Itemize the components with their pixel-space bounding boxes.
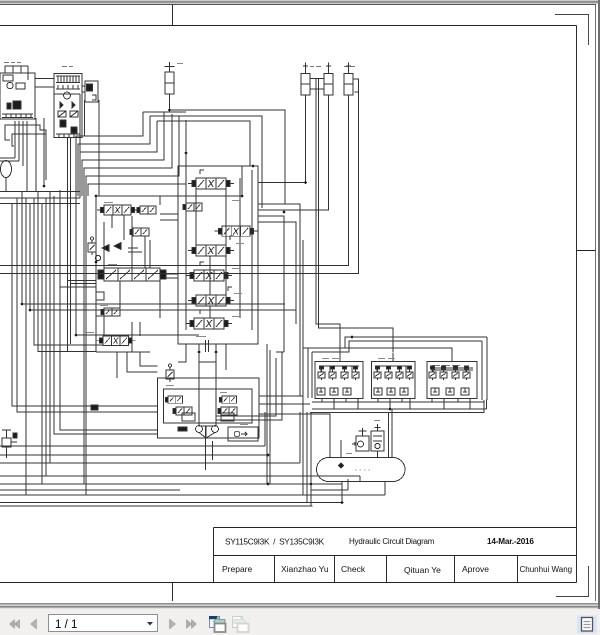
pilot valve 2.2 bbox=[385, 366, 392, 380]
valve C5 bbox=[186, 270, 232, 281]
pilot box 1 bbox=[315, 362, 363, 399]
solenoid P5 right bbox=[219, 396, 236, 403]
valve C4 bbox=[188, 245, 234, 256]
check L4 bbox=[96, 292, 104, 300]
frame top border bbox=[0, 25, 577, 27]
port block 3.1 bbox=[431, 388, 439, 395]
pump housing center bbox=[199, 362, 216, 426]
page number box bbox=[49, 615, 158, 632]
pilot valve 2.3 bbox=[396, 366, 403, 380]
button prev page bbox=[31, 619, 37, 629]
block P4 left bbox=[182, 413, 195, 421]
label pilot boxes bbox=[322, 358, 395, 360]
valve P3 left bbox=[173, 407, 192, 415]
pilot valve 3.2 bbox=[440, 366, 447, 380]
valve L1 bbox=[97, 205, 138, 215]
comb top row bbox=[56, 76, 80, 83]
pilot valve 1.3 bbox=[341, 366, 348, 380]
bank L rails bbox=[96, 196, 242, 352]
wire pump to right bbox=[259, 396, 330, 458]
button first page bbox=[10, 620, 20, 629]
valve C6 bbox=[188, 295, 234, 306]
arrow cluster L bbox=[102, 243, 121, 252]
attachment pipe bbox=[92, 95, 96, 100]
fold mark right middle bbox=[577, 250, 596, 252]
block A top piping bbox=[5, 66, 28, 80]
label tiny text B bbox=[62, 66, 73, 68]
wire attachment drops bbox=[85, 100, 100, 196]
button next page bbox=[170, 619, 176, 629]
port block 2.3 bbox=[400, 388, 408, 395]
valve L2 bbox=[137, 206, 156, 214]
pilot box 3 bbox=[427, 362, 477, 399]
relief P1 bbox=[166, 364, 174, 382]
wire tank verticals bbox=[303, 409, 392, 506]
valve L3 wide bbox=[104, 268, 160, 281]
wire assembly A drop bbox=[5, 125, 46, 180]
wire bank L to pump bbox=[117, 352, 158, 378]
svg-text:SY115C9I3K / SY135C9I3K: SY115C9I3K / SY135C9I3K bbox=[225, 537, 325, 547]
label pump bbox=[166, 386, 248, 425]
button last page bbox=[187, 620, 197, 629]
black port P8 bbox=[178, 427, 187, 431]
svg-text:Aprove: Aprove bbox=[462, 564, 489, 574]
viewer toolbar bbox=[0, 609, 600, 635]
wire bottom extra runs bbox=[0, 479, 348, 503]
port block 2.1 bbox=[374, 388, 382, 395]
box2 top feed bbox=[377, 353, 411, 373]
port block 3.2 bbox=[446, 388, 454, 395]
solenoid P2 left bbox=[165, 396, 182, 403]
block P7 right bbox=[221, 413, 234, 421]
port block 1.2 bbox=[330, 388, 338, 395]
valve B1 bbox=[58, 111, 66, 117]
check valves row bbox=[60, 102, 75, 108]
valve C1 bbox=[188, 178, 234, 189]
title block bbox=[214, 528, 577, 583]
fold mark bottom bbox=[172, 583, 174, 602]
label tiny text acc3 bbox=[344, 66, 355, 68]
wire bank feeds left bbox=[60, 281, 96, 288]
wire far runs upper bbox=[36, 94, 80, 198]
svg-text:Chunhui Wang: Chunhui Wang bbox=[520, 565, 573, 574]
valve P6 right bbox=[218, 407, 237, 415]
row2 cell dividers bbox=[275, 556, 518, 583]
pilot valve 1.4 bbox=[352, 366, 359, 380]
svg-text:Qituan Ye: Qituan Ye bbox=[404, 565, 441, 575]
right window border bbox=[598, 0, 600, 609]
valve L7 bbox=[96, 336, 135, 345]
gear circle bbox=[234, 431, 240, 437]
pilot valve 3.1 bbox=[429, 366, 436, 380]
port block 1.1 bbox=[317, 388, 325, 395]
row divider bbox=[214, 555, 577, 557]
pump outer box bbox=[158, 378, 260, 438]
gear box P9 bbox=[228, 427, 258, 441]
band between D1 D2 bbox=[310, 79, 324, 90]
wire left vertical bundle bbox=[12, 192, 158, 496]
comb row 2 bbox=[56, 85, 80, 89]
valve L6 bbox=[101, 308, 120, 316]
svg-text:14-Mar.-2016: 14-Mar.-2016 bbox=[487, 537, 534, 546]
bypass D3 bbox=[353, 79, 359, 92]
title block outline bbox=[214, 528, 577, 583]
frame bottom border bbox=[0, 582, 577, 584]
wire A down-left bbox=[15, 121, 27, 192]
micro labels bbox=[86, 64, 395, 454]
stubs L bbox=[112, 215, 145, 268]
button forward view (windows icon disabled) bbox=[233, 617, 249, 633]
block A outline bbox=[0, 73, 35, 119]
bank C outline bbox=[178, 166, 258, 344]
solenoid block A4 bbox=[7, 103, 11, 109]
pump circle A bbox=[7, 82, 13, 88]
attachment valve bbox=[87, 84, 93, 91]
fold mark top bbox=[172, 5, 174, 26]
valve L9 small bbox=[130, 228, 149, 236]
solenoid B3 bbox=[60, 120, 66, 127]
pilot valve 1.1 bbox=[318, 366, 325, 380]
wire B right bbox=[82, 86, 85, 92]
pilot ticks C bbox=[200, 170, 234, 314]
wire B bottom pair bbox=[68, 138, 71, 352]
wire big loops right bbox=[258, 89, 393, 352]
valve C7 bbox=[186, 318, 232, 329]
valve G bbox=[2, 438, 11, 447]
button back view (windows icon active) bbox=[209, 616, 226, 632]
stem with tick bbox=[165, 62, 175, 72]
circle L10 bbox=[95, 255, 100, 260]
wire pilot bottom runs bbox=[310, 399, 487, 413]
svg-text:Prepare: Prepare bbox=[222, 564, 253, 574]
label bank C rows bbox=[196, 201, 244, 337]
port block 1.3 bbox=[343, 388, 351, 395]
filter circle B bbox=[64, 92, 71, 99]
wire bank C bottom bbox=[178, 344, 226, 370]
wire pilot top feeds bbox=[316, 348, 452, 357]
ellipse E bbox=[1, 161, 12, 178]
filter F2 bbox=[371, 431, 384, 451]
pilot valve 2.4 bbox=[406, 366, 413, 380]
page bottom shadow bbox=[0, 602, 600, 609]
tank oval bbox=[317, 458, 406, 482]
wire C down bbox=[169, 94, 171, 110]
wire check valve run bbox=[143, 110, 285, 208]
label tiny text acc1 bbox=[310, 66, 321, 68]
pump circle right bbox=[212, 426, 219, 433]
gear arrow bbox=[241, 432, 247, 436]
wire staircase bundle top bbox=[76, 112, 150, 335]
relief L bbox=[88, 237, 96, 255]
pilot valve 1.2 bbox=[329, 366, 336, 380]
solenoid B4 bbox=[71, 127, 77, 133]
corner trim mark bottom-right bbox=[556, 566, 589, 597]
tank dots bbox=[355, 469, 370, 471]
label tiny text box3 bbox=[432, 365, 460, 367]
valve C2 bbox=[183, 203, 202, 211]
window top edge bbox=[0, 0, 600, 6]
coupling line bbox=[199, 426, 215, 438]
accumulator D2 bbox=[324, 63, 333, 96]
box3 top feed bbox=[433, 357, 473, 373]
dropdown arrow bbox=[147, 622, 153, 626]
wire bottom run ends bbox=[0, 446, 385, 506]
solenoid block A3 bbox=[13, 101, 21, 109]
wire B to A bbox=[35, 79, 54, 88]
port block 3.3 bbox=[461, 388, 469, 395]
svg-text:Check: Check bbox=[341, 564, 366, 574]
wire bank L to bank C bbox=[160, 166, 258, 278]
port block 2.2 bbox=[387, 388, 395, 395]
valve C body bbox=[165, 72, 174, 94]
bottom row ports bbox=[2, 114, 33, 118]
svg-text:1 / 1: 1 / 1 bbox=[55, 619, 77, 631]
pilot valve 3.4 bbox=[463, 366, 470, 380]
tank inlet junction bbox=[339, 463, 344, 468]
page right edge bbox=[595, 5, 597, 602]
attachment box B5 bbox=[85, 81, 98, 102]
pilot valve 3.3 bbox=[452, 366, 459, 380]
extra solenoids box3 bbox=[431, 369, 473, 371]
wire center drops bbox=[267, 344, 270, 484]
block B outline bbox=[54, 74, 82, 138]
wire P down bbox=[206, 426, 213, 470]
valve C3 bbox=[215, 226, 258, 236]
filter F1 bbox=[356, 436, 369, 451]
page top edge line bbox=[0, 4, 596, 6]
wire band lower turn bbox=[76, 334, 199, 336]
button sidebar toggle bbox=[577, 616, 597, 634]
wire pump bottom loop bbox=[54, 190, 282, 434]
corner trim mark top-right bbox=[555, 15, 589, 46]
wire bottom risers bbox=[265, 412, 360, 484]
wire E lines bbox=[0, 158, 80, 204]
label tank bbox=[346, 421, 380, 454]
wire center loops bbox=[258, 204, 303, 412]
label bank L rows bbox=[86, 203, 117, 333]
bottom comb bbox=[56, 134, 80, 138]
bank C inner rails bbox=[186, 166, 252, 330]
pump inner box bbox=[164, 389, 253, 423]
accumulator D1 bbox=[301, 63, 310, 96]
frame right border bbox=[576, 26, 578, 583]
accumulator D3 bbox=[344, 63, 353, 96]
valve B2 bbox=[70, 111, 78, 117]
box1 top feed bbox=[321, 353, 359, 373]
pump circle left bbox=[196, 426, 203, 433]
valve A1 bbox=[3, 75, 13, 81]
junction block left bbox=[91, 405, 98, 410]
pump housing stem bbox=[199, 340, 216, 362]
svg-text:Hydraulic Circuit Diagram: Hydraulic Circuit Diagram bbox=[349, 537, 435, 546]
svg-text:Xianzhao Yu: Xianzhao Yu bbox=[281, 564, 329, 574]
label tiny text A bbox=[4, 62, 21, 64]
pilot enclosure outer bbox=[303, 337, 487, 400]
pilot box 2 bbox=[372, 362, 416, 399]
valve A2 bbox=[16, 83, 25, 89]
pilot valve 2.1 bbox=[374, 366, 381, 380]
bank L inner wires bbox=[96, 216, 160, 352]
label top mid bbox=[177, 63, 183, 65]
wire left turns mid bbox=[22, 192, 296, 352]
